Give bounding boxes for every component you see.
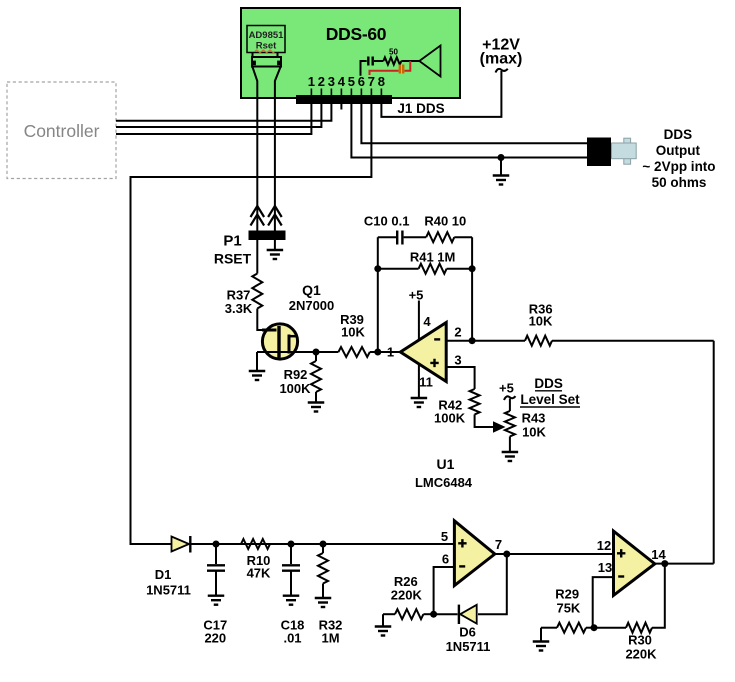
- resistor R39 10K: [338, 347, 369, 357]
- svg-text:R30: R30: [628, 633, 652, 648]
- svg-text:~ 2Vpp into: ~ 2Vpp into: [642, 159, 715, 174]
- capacitor C10 0.1: [396, 231, 398, 245]
- svg-text:Level Set: Level Set: [520, 392, 580, 407]
- svg-text:D6: D6: [459, 625, 476, 640]
- wire pin14 down to R30: [652, 564, 665, 628]
- wire feedback left vertical: [377, 237, 379, 352]
- wire J1 pin5 to DDS output (bottom): [351, 103, 587, 158]
- ground (R29): [533, 640, 550, 642]
- wire trimpot to P1 (right lead): [275, 67, 281, 98]
- node ground junction on output line: [498, 154, 505, 161]
- resistor R37 3.3K: [252, 274, 262, 309]
- node Q1 drain junction: [313, 349, 320, 356]
- svg-text:DDS: DDS: [664, 127, 693, 142]
- svg-text:C10 0.1: C10 0.1: [364, 214, 410, 229]
- svg-text:2: 2: [454, 325, 461, 340]
- transistor Q1 2N7000: [262, 324, 297, 359]
- svg-text:5: 5: [348, 74, 355, 89]
- svg-text:3: 3: [454, 353, 461, 368]
- svg-text:6: 6: [442, 552, 449, 567]
- svg-text:+5: +5: [499, 381, 514, 396]
- wire pin2 to feedback node: [446, 340, 472, 342]
- svg-text:DDS-60: DDS-60: [326, 24, 387, 44]
- resistor R26 220K: [383, 613, 395, 615]
- svg-text:U1: U1: [437, 456, 455, 472]
- svg-text:220K: 220K: [391, 588, 423, 603]
- svg-text:AD9851: AD9851: [249, 30, 285, 41]
- svg-text:Q1: Q1: [302, 282, 321, 298]
- wire R92 to ground: [315, 392, 317, 403]
- svg-text:13: 13: [598, 560, 612, 575]
- svg-text:R40 10: R40 10: [424, 214, 466, 229]
- node R41 right junction: [469, 265, 476, 272]
- wire R39 to op-amp pin1: [370, 351, 401, 353]
- wire R29 to ground: [540, 628, 542, 642]
- wire pin7 down to D6: [478, 554, 507, 614]
- resistor R42 100K: [470, 389, 480, 414]
- arrow chevrons on P1 left lead: [251, 206, 265, 226]
- svg-text:D1: D1: [155, 567, 172, 582]
- wire R26 to ground: [382, 614, 384, 626]
- ground (R26): [375, 625, 392, 627]
- op-amp U1a (points left): [400, 323, 446, 382]
- wire top feedback to C10: [378, 236, 396, 238]
- wire R42 to R43 wiper arrow: [475, 414, 494, 427]
- arrow chevrons on P1 right lead: [268, 206, 282, 226]
- wire drain to R92: [315, 352, 317, 361]
- svg-text:(max): (max): [480, 51, 523, 68]
- wire main bottom line: [191, 543, 454, 545]
- tiny resistor under Rset (orange): [255, 50, 275, 52]
- svg-text:Output: Output: [656, 143, 701, 158]
- svg-text:100K: 100K: [434, 411, 466, 426]
- svg-text:R41 1M: R41 1M: [410, 250, 456, 265]
- wire J1 pin8 to +12V: [381, 71, 501, 117]
- svg-text:1N5711: 1N5711: [146, 583, 191, 598]
- svg-text:50: 50: [389, 48, 398, 57]
- svg-text:1M: 1M: [321, 631, 339, 646]
- wire right feedback rail vertical: [713, 341, 715, 564]
- diode D6 1N5711: [434, 613, 458, 615]
- svg-text:R43: R43: [522, 411, 546, 426]
- ground (P1): [267, 249, 284, 251]
- wire trimpot to P1 (left lead): [253, 67, 258, 98]
- svg-text:8: 8: [378, 74, 385, 89]
- svg-text:7: 7: [368, 74, 375, 89]
- node C17 junction: [213, 541, 220, 548]
- svg-text:100K: 100K: [279, 381, 311, 396]
- svg-text:R29: R29: [555, 587, 579, 602]
- ground (R32): [315, 597, 332, 599]
- module DDS-60 (green board outline): [241, 8, 460, 98]
- resistor R92 100K: [311, 361, 321, 392]
- svg-text:4: 4: [338, 74, 346, 89]
- wire P1 right to ground: [274, 240, 276, 250]
- resistor R41 1M: [419, 264, 447, 274]
- svg-text:Controller: Controller: [24, 121, 100, 141]
- ground (R43): [502, 451, 519, 453]
- connector DDS output plug (black): [587, 138, 611, 167]
- wire pin13 loop: [593, 577, 614, 628]
- wire pin3 to R42: [446, 367, 474, 389]
- wire C10 to R40: [404, 236, 427, 238]
- node R29/R30 junction: [591, 624, 598, 631]
- wire P1 to R37: [256, 240, 258, 274]
- svg-text:75K: 75K: [556, 601, 580, 616]
- svg-text:11: 11: [419, 375, 433, 390]
- node pin1 feedback junction: [374, 349, 381, 356]
- svg-text:7: 7: [495, 537, 502, 552]
- capacitor C18 .01: [290, 544, 292, 564]
- resistor R30 220K: [594, 627, 626, 629]
- ground (C18): [283, 595, 300, 597]
- svg-text:12: 12: [597, 538, 611, 553]
- capacitor (module output, series): [367, 57, 369, 66]
- resistor R40 10: [426, 232, 454, 242]
- svg-text:10K: 10K: [522, 424, 546, 439]
- ground (R92): [308, 401, 325, 403]
- wire R41 left: [378, 268, 419, 270]
- header P1 bar: [249, 231, 286, 241]
- wire Q1 source to ground: [256, 352, 258, 371]
- wire J1 pin1 to controller: [116, 103, 311, 134]
- svg-text:220: 220: [204, 631, 226, 646]
- resistor R32 1M: [322, 544, 324, 553]
- wire J1 pin7 long run to D1: [131, 103, 372, 544]
- wire J1 pin3 to controller: [116, 103, 331, 121]
- trimpot package under AD9851 box: [253, 53, 278, 58]
- svg-text:14: 14: [651, 547, 666, 562]
- wire Q1 source line: [257, 351, 338, 353]
- svg-text:2: 2: [318, 74, 325, 89]
- svg-text:1: 1: [387, 345, 394, 360]
- node R32 junction: [320, 541, 327, 548]
- svg-text:LMC6484: LMC6484: [415, 475, 473, 490]
- node pin2 junction: [469, 337, 476, 344]
- wire R43 to ground: [509, 436, 511, 452]
- controller box: [7, 82, 116, 179]
- diode D1 1N5711: [172, 537, 190, 552]
- connector J1 bar: [296, 95, 392, 104]
- node C10/R41 left junction: [374, 265, 381, 272]
- svg-text:220K: 220K: [625, 647, 657, 662]
- op-amp U1c: [614, 531, 655, 595]
- svg-text:P1: P1: [223, 233, 241, 250]
- svg-text:DDS: DDS: [534, 376, 563, 391]
- node R26/D6 junction: [430, 611, 437, 618]
- ground (Q1 source): [249, 370, 266, 372]
- svg-text:RSET: RSET: [214, 251, 252, 267]
- wire P1 left lead: [256, 98, 258, 231]
- wire R37 to Q1 gate: [257, 309, 276, 331]
- ground (U1a pin11): [411, 397, 428, 399]
- svg-text:R92: R92: [284, 367, 308, 382]
- wire feedback right vertical: [471, 237, 473, 341]
- svg-text:47K: 47K: [247, 566, 271, 581]
- svg-text:2N7000: 2N7000: [289, 298, 335, 313]
- capacitor C17 220: [215, 544, 217, 564]
- node pin14 junction: [661, 560, 668, 567]
- amplifier/speaker triangle in module: [419, 46, 440, 77]
- node pin7 junction: [503, 551, 510, 558]
- svg-text:5: 5: [441, 529, 448, 544]
- IC AD9851 Rset box: [247, 26, 285, 53]
- red bypass wire with capacitor (module): [405, 61, 411, 71]
- svg-text:6: 6: [358, 74, 365, 89]
- svg-text:10K: 10K: [341, 325, 365, 340]
- resistor R36 10K: [472, 340, 525, 342]
- wire R36 to right feedback rail: [552, 340, 714, 342]
- resistor R29 75K: [541, 627, 557, 629]
- wire J1 pin6 to DDS output (top): [361, 103, 587, 143]
- svg-text:3: 3: [328, 74, 335, 89]
- svg-text:1N5711: 1N5711: [446, 639, 491, 654]
- svg-text:10K: 10K: [529, 314, 553, 329]
- svg-text:50 ohms: 50 ohms: [652, 175, 707, 190]
- svg-text:J1 DDS: J1 DDS: [397, 101, 444, 116]
- svg-text:Rset: Rset: [256, 41, 277, 52]
- wire P1 right lead: [274, 98, 276, 231]
- wire R41 right: [447, 268, 473, 270]
- ground (C17): [208, 595, 225, 597]
- wire R40 to right vertical: [454, 236, 472, 238]
- node C18 junction: [288, 541, 295, 548]
- wire J1 pin4 stub: [340, 103, 342, 110]
- connector BNC body (blue): [624, 138, 631, 144]
- svg-text:3.3K: 3.3K: [225, 301, 253, 316]
- svg-text:1: 1: [308, 74, 315, 89]
- output RC network inside module: [361, 61, 367, 76]
- resistor 50 (module output): [383, 57, 401, 64]
- resistor R10 47K: [241, 539, 270, 549]
- wire pin6 loop: [434, 567, 455, 614]
- svg-text:.01: .01: [283, 631, 301, 646]
- wire J1 pin2 to controller: [116, 103, 321, 127]
- svg-text:+5: +5: [409, 288, 424, 303]
- wire to amp symbol: [401, 60, 419, 62]
- op-amp U1b: [454, 521, 494, 586]
- ground (output line): [493, 174, 510, 176]
- strain squiggle at +12V: [496, 69, 508, 73]
- svg-text:4: 4: [423, 314, 431, 329]
